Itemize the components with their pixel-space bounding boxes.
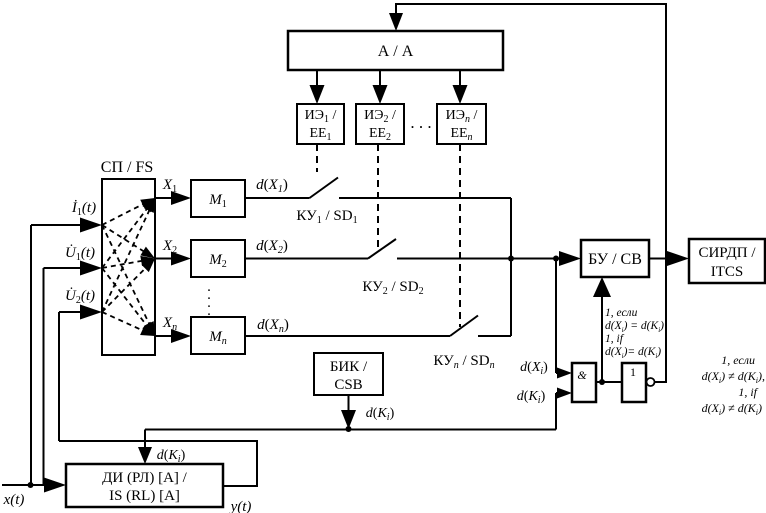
svg-text:ИЭ2​ /: ИЭ2​ / (364, 108, 396, 125)
svg-text:CSB: CSB (334, 377, 362, 393)
wire d(Xi) stub (556, 372, 558, 374)
arrowhead d(Xi) into comparator (557, 368, 572, 379)
arrowhead U2 into SP (80, 305, 102, 320)
wire I1(t) horizontal (31, 224, 82, 226)
junction d(Ki) line (346, 426, 352, 432)
svg-text:....: .... (207, 279, 211, 319)
wire d(Ki) horizontal (145, 429, 556, 431)
svg-text:СП / FS: СП / FS (101, 159, 153, 176)
dashed fan wire input2 to output1 (102, 207, 148, 268)
arrowhead I1 into SP (80, 218, 102, 233)
svg-text:БИК /: БИК / (330, 359, 368, 375)
wire d(Ki) drop to IS (144, 430, 146, 449)
arrow into A/A top (389, 13, 403, 31)
svg-text:СИРДП /: СИРДП / (698, 245, 756, 261)
svg-text:d(Xi​): d(Xi​) (520, 360, 548, 377)
wire feedback from NOT output to A/A (396, 4, 666, 383)
svg-text:ITCS: ITCS (711, 264, 744, 280)
switch KUn/SDn blade (450, 316, 478, 337)
svg-text:ИЭ1​ /: ИЭ1​ / (305, 108, 337, 125)
svg-text:d(Xi​) ≠ d(Ki​),: d(Xi​) ≠ d(Ki​), (702, 369, 765, 385)
dashed wire IE1 to switch KU1 (316, 144, 318, 172)
svg-text:d(Xi​) = d(Ki​): d(Xi​) = d(Ki​) (605, 320, 664, 334)
dashed fan wire input3 to output3 (102, 312, 145, 332)
svg-text:КУ1​ / SD1​: КУ1​ / SD1​ (296, 208, 357, 226)
switch KU2/SD2 blade (368, 239, 396, 259)
wire d(X1) from M1 (245, 197, 310, 199)
wire after switch KU1 (339, 197, 511, 199)
svg-text:İ1​(t): İ1​(t) (71, 200, 96, 218)
wire X1 to M box (155, 197, 172, 199)
dashed wire IEn to switch KUn (459, 144, 461, 327)
wire U2(t) horizontal (59, 311, 82, 313)
arrowhead (310, 85, 325, 104)
block A/A converter (288, 31, 503, 70)
wire X2 to M box (155, 258, 172, 260)
svg-text:U̇1​(t): U̇1​(t) (65, 245, 95, 263)
block M2 modulator (191, 240, 245, 277)
fan arrowhead (142, 259, 156, 273)
wire BIK down (348, 395, 350, 412)
svg-text:ДИ (РЛ) [А] /: ДИ (РЛ) [А] / (102, 470, 188, 486)
dashed fan wire input1 to output3 (102, 225, 150, 326)
wire A/A to IE at x=460 (459, 70, 461, 88)
arrowhead (373, 85, 388, 104)
junction d(Xi) tap (553, 256, 559, 262)
arrowhead BIK d(Ki) (341, 410, 356, 429)
block IEn/EEn (437, 104, 486, 144)
svg-text:d(Xn​): d(Xn​) (257, 317, 289, 335)
svg-text:КУn​ / SDn​: КУn​ / SDn​ (433, 353, 494, 371)
junction x(t)/I1 (28, 482, 34, 488)
block Mn modulator (191, 317, 245, 354)
svg-text:А / А: А / А (378, 43, 414, 60)
block BIK/CSB (314, 353, 383, 395)
block SIRDP/ITCS (689, 239, 765, 283)
svg-text:КУ2​ / SD2​: КУ2​ / SD2​ (362, 279, 423, 297)
arrowhead d(Ki) into comparator (557, 388, 572, 399)
fan arrowhead (140, 326, 155, 337)
arrowhead into BU/CB (559, 251, 581, 266)
arrowhead into SIRDP (667, 251, 689, 266)
arrowhead (453, 85, 468, 104)
fan arrowhead (140, 247, 155, 259)
dashed fan wire input2 to output2 (102, 260, 144, 268)
fan arrowhead (142, 198, 155, 212)
svg-text:1, если: 1, если (605, 307, 638, 319)
fan arrowhead (144, 198, 155, 213)
wire BU to SIRDP (649, 258, 670, 260)
dashed fan wire input2 to output3 (102, 268, 148, 327)
switch KU1/SD1 blade (310, 178, 339, 199)
arrowhead X2 (171, 252, 191, 266)
wire d(Ki) riser to comparator (555, 393, 557, 430)
svg-text:1, if: 1, if (605, 333, 625, 345)
svg-text:1: 1 (630, 365, 636, 379)
block SP/FS selector (102, 179, 155, 355)
svg-text:&: & (577, 368, 587, 382)
svg-text:IS (RL) [А]: IS (RL) [А] (109, 488, 180, 504)
svg-text:y(t): y(t) (229, 499, 252, 513)
svg-text:d(Ki​): d(Ki​) (157, 448, 186, 465)
arrowhead Xn (171, 329, 191, 343)
wire after switch KUn (478, 335, 511, 337)
block IE2/EE2 (356, 104, 404, 144)
wire NOT output (655, 381, 667, 383)
wire d(Xi) vertical (555, 259, 557, 374)
wire U2(t) vertical (58, 312, 60, 441)
wire U1(t) horizontal (44, 267, 83, 269)
wire Xn to M box (155, 335, 172, 337)
dashed fan wire input1 to output2 (102, 225, 146, 253)
wire y(t) feedback (59, 441, 257, 486)
dashed fan wire input3 to output2 (102, 266, 147, 312)
wire comparator to BU vertical (601, 295, 603, 382)
svg-text:d(Ki​): d(Ki​) (517, 389, 546, 406)
arrowhead X1 (171, 191, 191, 205)
dashed fan wire input1 to output1 (102, 203, 145, 225)
fan arrowhead (142, 322, 155, 336)
svg-text:БУ / СВ: БУ / СВ (588, 251, 642, 268)
fan arrowhead (140, 256, 155, 266)
NOT gate inversion circle (647, 378, 655, 386)
svg-text:. . .: . . . (410, 113, 431, 132)
arrowhead U1 into SP (80, 261, 102, 276)
fan arrowhead (140, 198, 155, 209)
wire collector vertical (510, 198, 512, 336)
svg-text:d(X2​): d(X2​) (256, 238, 288, 256)
svg-text:U̇2​(t): U̇2​(t) (65, 288, 95, 306)
block M1 modulator (191, 180, 245, 217)
block IE1/EE1 (297, 104, 344, 144)
wire I1(t) vertical (30, 225, 32, 485)
wire comparator to NOT (596, 381, 622, 383)
svg-text:ИЭn​ /: ИЭn​ / (446, 108, 478, 125)
fan arrowhead (144, 321, 155, 336)
wire U1(t) vertical (43, 268, 45, 484)
wire A/A to IE at x=380 (379, 70, 381, 88)
wire A/A to IE at x=317 (316, 70, 318, 88)
junction collector/BU line (508, 256, 514, 262)
svg-text:d(Xi​)= d(Ki​): d(Xi​)= d(Ki​) (605, 346, 661, 360)
dashed fan wire input3 to output1 (102, 208, 150, 312)
junction comparator output (599, 379, 605, 385)
arrowhead into BU bottom (593, 277, 611, 297)
comparator U1 (572, 363, 596, 402)
svg-text:1, if: 1, if (738, 385, 758, 399)
arrowhead x(t) into IS (44, 478, 66, 493)
svg-text:x(t): x(t) (3, 492, 25, 508)
wire d(Xn) from Mn (245, 335, 450, 337)
svg-text:1, если: 1, если (721, 353, 755, 367)
wire x(t) input (2, 484, 46, 486)
svg-text:d(X1​): d(X1​) (256, 177, 288, 195)
dashed wire IE2 to switch KU2 (377, 144, 379, 251)
wire d(Ki) stub (556, 392, 558, 394)
block BU/CB control (581, 240, 649, 277)
NOT gate U2 (622, 363, 646, 402)
svg-text:d(Xi​) ≠ d(Ki​): d(Xi​) ≠ d(Ki​) (702, 401, 762, 417)
wire after switch KU2 to BU (397, 258, 560, 260)
svg-text:d(Ki​): d(Ki​) (366, 406, 395, 423)
arrowhead d(Ki) into IS (138, 447, 152, 464)
block DI(RL)[A]/IS(RL)[A] sensor (66, 464, 223, 507)
wire d(X2) from M2 (245, 258, 368, 260)
